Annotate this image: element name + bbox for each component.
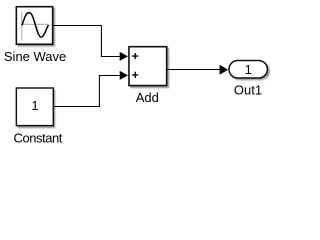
out1 block shadow <box>230 62 270 80</box>
out1 block: Out1 <box>229 61 267 79</box>
add block: Add <box>129 47 167 86</box>
arrowhead into out1 <box>220 65 229 75</box>
sine wave block shadow <box>18 8 55 47</box>
svg-text:1: 1 <box>245 62 252 77</box>
plus sign port 2 <box>132 72 138 78</box>
svg-text:1: 1 <box>31 98 38 113</box>
wire sine to add <box>53 26 121 57</box>
svg-text:Out1: Out1 <box>234 82 262 97</box>
svg-text:Add: Add <box>136 90 159 105</box>
wire constant to add <box>54 76 121 107</box>
sine icon axes <box>21 12 49 40</box>
arrowhead into add port 2 <box>120 71 128 80</box>
constant block shadow <box>18 89 56 128</box>
arrowhead into add port 1 <box>120 52 128 61</box>
svg-text:Constant: Constant <box>14 131 63 146</box>
constant block: Constant <box>16 88 53 126</box>
plus sign port 1 <box>132 53 138 59</box>
svg-text:Sine Wave: Sine Wave <box>4 49 66 64</box>
sine wave block: Sine Wave <box>16 7 52 45</box>
wire add to out1 <box>167 69 221 71</box>
sine icon curve <box>22 13 48 37</box>
add block shadow <box>130 48 169 88</box>
